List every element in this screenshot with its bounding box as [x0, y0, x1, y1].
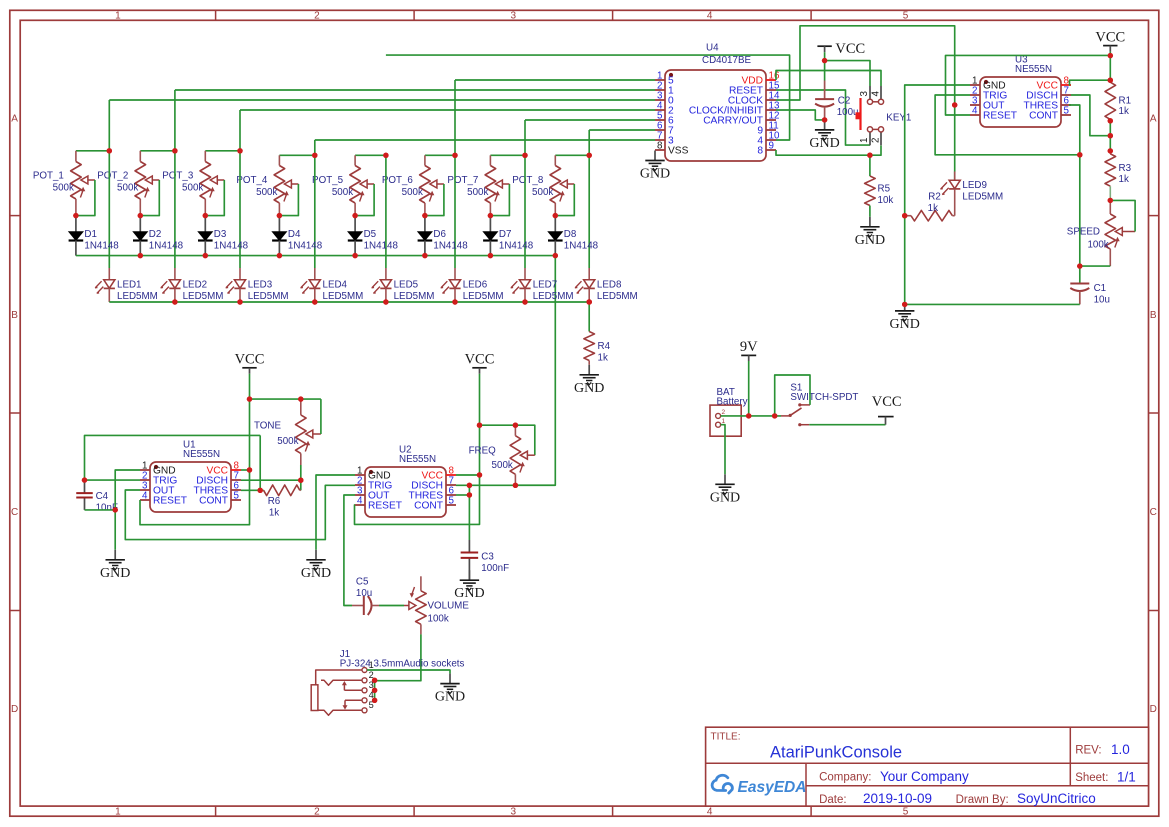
junction pot top [172, 148, 177, 153]
junction VCC right [1108, 53, 1113, 58]
junction R1 top [1108, 78, 1113, 83]
junction DISCH node [1108, 133, 1113, 138]
svg-text:LED5MM: LED5MM [183, 291, 224, 302]
wire column 2 vertical [174, 90, 176, 268]
diode D8 1N4148 [548, 216, 599, 256]
junction pot top [312, 153, 317, 158]
svg-text:10u: 10u [1094, 295, 1110, 306]
svg-text:RESET: RESET [368, 501, 402, 512]
wire U4 pin7 Q3 to column 4 [315, 139, 655, 141]
svg-text:GND: GND [855, 233, 885, 248]
junction J1 pin3 [372, 688, 377, 693]
wire U1 TRIG [85, 479, 141, 481]
wire U4 pin5 Q6 to column 7 [525, 119, 655, 121]
wire U4 pin1 Q5 to column 6 [455, 79, 655, 81]
junction FREQ bottom [513, 483, 518, 488]
wire DISCH-THRES-C3 vertical [468, 485, 470, 540]
potentiometer POT_8 500k [512, 155, 589, 215]
wire column 7 vertical [524, 120, 526, 268]
svg-text:500k: 500k [492, 460, 513, 471]
wire column 6 vertical [454, 80, 456, 268]
junction dots overlay [73, 53, 1113, 703]
svg-text:1N4148: 1N4148 [564, 241, 599, 252]
svg-text:1/1: 1/1 [1117, 770, 1136, 785]
wire column 4 vertical [314, 140, 316, 268]
svg-text:500k: 500k [117, 182, 138, 193]
svg-text:POT_8: POT_8 [512, 175, 544, 186]
svg-text:SoyUnCitrico: SoyUnCitrico [1017, 791, 1096, 806]
svg-text:5: 5 [1064, 106, 1070, 117]
svg-text:R6: R6 [268, 496, 281, 507]
IC U2 NE555N [355, 445, 456, 517]
svg-text:8: 8 [757, 146, 763, 157]
ground under R4 [574, 365, 604, 396]
wire diode cathode bus [76, 255, 555, 257]
junction LED bus LED7 [522, 299, 527, 304]
junction pot top [587, 153, 592, 158]
svg-text:100k: 100k [428, 613, 449, 624]
junction R3 bottom / SPEED top [1108, 198, 1113, 203]
wire U3 TRIG to timing node [935, 95, 1080, 155]
wire R1 to R3 [1109, 121, 1111, 151]
wire U3 RESET to VCC [946, 55, 1111, 115]
wire battery minus to ground [721, 425, 725, 475]
junction R1 bottom [1108, 118, 1113, 123]
junction TONE top [298, 396, 303, 401]
svg-text:GND: GND [435, 690, 465, 705]
svg-text:1: 1 [369, 660, 374, 670]
wire VCC2 to U2 pin8 [479, 425, 481, 475]
wire TONE bottom to DISCH and R6 [300, 465, 302, 490]
svg-text:C4: C4 [96, 491, 109, 502]
diode D3 1N4148 [198, 216, 249, 256]
wire column 3 vertical [239, 110, 241, 268]
svg-text:2: 2 [870, 138, 881, 143]
svg-text:500k: 500k [402, 187, 423, 198]
ground top right [890, 304, 920, 332]
svg-text:1k: 1k [269, 507, 279, 518]
potentiometer POT_4 500k [236, 155, 314, 215]
potentiometer TONE 500k [254, 399, 321, 465]
svg-text:1k: 1k [598, 353, 608, 364]
wire C5 to VOLUME wiper [379, 605, 404, 607]
svg-text:1N4148: 1N4148 [149, 241, 184, 252]
ground under R5 [855, 217, 885, 248]
svg-text:POT_1: POT_1 [33, 170, 64, 181]
svg-text:4: 4 [142, 491, 148, 502]
svg-text:LED5MM: LED5MM [533, 291, 574, 302]
connector J1 PJ-324 [311, 649, 464, 716]
resistor R2 1k [905, 192, 955, 222]
svg-text:C1: C1 [1094, 283, 1107, 294]
svg-text:LED5MM: LED5MM [394, 291, 435, 302]
wire U1 GND down [115, 470, 140, 550]
LED LED8 LED5MM [575, 268, 638, 302]
wire VCC right rail [1109, 52, 1111, 56]
svg-text:R4: R4 [598, 341, 611, 352]
svg-text:500k: 500k [182, 182, 203, 193]
svg-text:500k: 500k [277, 436, 298, 447]
wire J1 tied pins 2-3-4 [374, 680, 376, 700]
junction J1 pin2 [372, 678, 377, 683]
junction pot wiper/bottom [422, 213, 427, 218]
LED LED7 LED5MM [511, 268, 574, 302]
ground under U2 [301, 550, 331, 581]
junction U2 pin8 [477, 472, 482, 477]
junction J1 pin4 [372, 698, 377, 703]
svg-text:REV:: REV: [1075, 745, 1101, 757]
power flag VCC U2 [465, 352, 495, 374]
LED LED5 LED5MM [371, 268, 434, 302]
wire U1 RESET loop [140, 470, 250, 525]
svg-text:LED5MM: LED5MM [597, 291, 638, 302]
junction U3 OUT [952, 102, 957, 107]
junction diode bus D4 [277, 253, 282, 258]
svg-text:VCC: VCC [465, 352, 495, 368]
svg-text:FREQ: FREQ [469, 446, 497, 457]
wire U1 DISCH [241, 479, 301, 481]
power flag 9V [740, 339, 758, 361]
svg-text:KEY1: KEY1 [886, 113, 911, 124]
svg-text:D1: D1 [84, 229, 97, 240]
svg-text:LED6: LED6 [463, 279, 488, 290]
potentiometer POT_5 500k [312, 155, 386, 215]
junction LED bus LED2 [172, 299, 177, 304]
svg-text:POT_3: POT_3 [162, 170, 194, 181]
wire C1 bottom to ground rail [905, 303, 1080, 305]
junction LED bus LED3 [237, 299, 242, 304]
capacitor C1 10u [1070, 283, 1110, 306]
potentiometer SPEED 100k [1067, 200, 1135, 266]
wire VCC2 down [479, 374, 481, 425]
svg-text:GND: GND [640, 167, 670, 182]
wire VCC rail to KEY1 pin3 [825, 61, 870, 86]
svg-text:AtariPunkConsole: AtariPunkConsole [770, 744, 902, 762]
wire VCC1 to U1 pin8 and RESET [249, 399, 251, 470]
power flag VCC near switch [872, 394, 902, 425]
svg-text:POT_5: POT_5 [312, 175, 344, 186]
wire diode bus drop to U2 node [515, 256, 555, 486]
junction LED bus to R4 [587, 299, 592, 304]
svg-text:R5: R5 [878, 184, 891, 195]
svg-text:GND: GND [454, 586, 484, 601]
svg-text:4: 4 [870, 91, 881, 97]
junction LED bus LED4 [312, 299, 317, 304]
svg-text:8: 8 [657, 141, 663, 152]
svg-text:GND: GND [301, 566, 331, 581]
junction Q8 node [867, 153, 872, 158]
svg-text:500k: 500k [467, 187, 488, 198]
wire switch lower throw to VCC [809, 424, 885, 426]
LED LED3 LED5MM [226, 268, 289, 302]
wire battery plus to switch pole [721, 415, 781, 417]
svg-text:1: 1 [115, 11, 121, 22]
svg-text:Battery: Battery [717, 397, 748, 408]
svg-text:C5: C5 [356, 576, 369, 587]
LED LED9 LED5MM [940, 105, 1003, 216]
wire 9V to battery plus [748, 361, 750, 416]
wire U4 pin14 CLOCK from U3 OUT [776, 26, 955, 105]
wire U3 pin8 to R1 top [1069, 80, 1110, 85]
junction pot top [522, 153, 527, 158]
svg-text:LED3: LED3 [248, 279, 273, 290]
junction FREQ top [513, 423, 518, 428]
svg-text:RESET: RESET [983, 111, 1017, 122]
wire column 8 vertical [588, 130, 590, 268]
IC U4 CD4017BE [655, 43, 780, 162]
wire U4 pin6 Q7 to column 8 [589, 129, 655, 131]
svg-text:1N4148: 1N4148 [433, 241, 468, 252]
svg-text:LED5MM: LED5MM [323, 291, 364, 302]
svg-text:LED5MM: LED5MM [248, 291, 289, 302]
svg-text:9V: 9V [740, 339, 758, 355]
junction diode bus D8 [553, 253, 558, 258]
wire U4 pin9 Q8 to KEY1 pin2 and R5 [776, 150, 870, 155]
junction U1 pin8 [247, 467, 252, 472]
svg-text:A: A [1150, 114, 1157, 125]
svg-text:9: 9 [769, 141, 774, 152]
junction switch loop [772, 413, 777, 418]
svg-text:4: 4 [707, 806, 713, 817]
svg-text:4: 4 [972, 106, 978, 117]
svg-text:LED9: LED9 [962, 180, 987, 191]
wire switch upper throw loop [775, 375, 810, 416]
svg-text:LED5MM: LED5MM [463, 291, 504, 302]
LED LED6 LED5MM [441, 268, 504, 302]
svg-text:10u: 10u [356, 588, 372, 599]
svg-text:1: 1 [115, 806, 121, 817]
potentiometer FREQ 500k [469, 425, 535, 485]
junction diode bus D3 [203, 253, 208, 258]
svg-text:SPEED: SPEED [1067, 227, 1100, 238]
LED LED2 LED5MM [160, 268, 223, 302]
svg-text:VCC: VCC [235, 352, 265, 368]
svg-text:VOLUME: VOLUME [428, 600, 470, 611]
svg-text:1N4148: 1N4148 [214, 241, 249, 252]
svg-text:5: 5 [903, 11, 909, 22]
svg-text:5: 5 [234, 491, 240, 502]
junction pot top [107, 148, 112, 153]
wire LED cathode bus [109, 301, 589, 303]
svg-text:D2: D2 [149, 229, 162, 240]
svg-text:TITLE:: TITLE: [711, 732, 741, 743]
svg-text:POT_7: POT_7 [447, 175, 478, 186]
battery BAT [710, 387, 748, 436]
switch S1 SPDT [781, 382, 858, 426]
svg-text:VCC: VCC [1095, 30, 1125, 46]
svg-text:R2: R2 [928, 192, 941, 203]
resistor R3 1k [1105, 151, 1132, 201]
svg-text:1N4148: 1N4148 [84, 241, 119, 252]
svg-text:VCC: VCC [835, 41, 865, 57]
capacitor C4 10nF [76, 480, 118, 513]
junction pot top [452, 153, 457, 158]
junction R2 left [902, 213, 907, 218]
wire U2 GND down [316, 475, 355, 550]
junction VCC1 [247, 396, 252, 401]
svg-text:LED7: LED7 [533, 279, 558, 290]
junction LED bus LED5 [383, 299, 388, 304]
power flag VCC top middle [817, 41, 865, 57]
junction pot top [237, 148, 242, 153]
svg-text:100nF: 100nF [481, 563, 509, 574]
junction C3 top on DISCH [467, 483, 472, 488]
LED LED4 LED5MM [300, 268, 363, 302]
svg-text:CD4017BE: CD4017BE [702, 55, 751, 66]
svg-text:GND: GND [574, 381, 604, 396]
junction C2 bottom [822, 117, 827, 122]
svg-text:CONT: CONT [414, 501, 443, 512]
svg-text:NE555N: NE555N [399, 454, 436, 465]
wire J1 pin1 to ground [367, 670, 450, 674]
svg-text:LED8: LED8 [597, 279, 622, 290]
wire U2 OUT to C5 [344, 495, 355, 606]
resistor R1 1k [1105, 82, 1131, 119]
svg-text:3: 3 [511, 806, 517, 817]
svg-text:Your Company: Your Company [880, 769, 969, 784]
svg-text:1k: 1k [1119, 174, 1129, 185]
svg-text:GND: GND [809, 136, 839, 151]
svg-text:SWITCH-SPDT: SWITCH-SPDT [790, 392, 858, 403]
svg-text:Drawn By:: Drawn By: [956, 794, 1009, 806]
svg-text:1N4148: 1N4148 [499, 241, 534, 252]
svg-text:2: 2 [314, 11, 320, 22]
svg-text:B: B [1150, 310, 1157, 321]
svg-text:CONT: CONT [1029, 111, 1058, 122]
svg-text:3: 3 [859, 91, 870, 97]
junction THRES [467, 492, 472, 497]
diode D2 1N4148 [133, 216, 184, 256]
svg-text:LED5: LED5 [394, 279, 419, 290]
wire SPEED bottom to timing node [1080, 265, 1111, 267]
junction VCC rail [822, 58, 827, 63]
svg-text:LED5MM: LED5MM [117, 291, 158, 302]
potentiometer POT_1 500k [33, 151, 109, 216]
power flag VCC top right [1095, 30, 1125, 52]
wire U4 pin15 RESET to KEY1 pin1 [776, 90, 870, 145]
svg-text:D7: D7 [499, 229, 512, 240]
wire column 5 vertical [385, 155, 387, 268]
svg-text:B: B [11, 310, 18, 321]
svg-text:D: D [11, 704, 18, 715]
ground under C3 [454, 570, 484, 601]
svg-text:RESET: RESET [153, 496, 187, 507]
wire U1 OUT to U2 TRIG [125, 485, 355, 539]
junction U1 DISCH [298, 478, 303, 483]
junction R6 left [258, 488, 263, 493]
svg-text:3: 3 [511, 11, 517, 22]
wire VCC1 rail to TONE [250, 398, 321, 400]
junction VCC2 rail [477, 423, 482, 428]
svg-text:Company:: Company: [819, 772, 871, 784]
svg-text:1k: 1k [1119, 106, 1129, 117]
junction pot wiper/bottom [203, 213, 208, 218]
wire column 1 vertical [108, 100, 110, 268]
svg-text:C: C [1150, 507, 1157, 518]
svg-text:LED2: LED2 [183, 279, 208, 290]
wire VCC2 rail to FREQ wiper loop [480, 425, 535, 455]
svg-text:D5: D5 [364, 229, 377, 240]
diode D4 1N4148 [272, 216, 323, 256]
svg-text:D6: D6 [433, 229, 446, 240]
svg-text:LED5MM: LED5MM [962, 192, 1003, 203]
svg-text:1.0: 1.0 [1111, 742, 1130, 757]
capacitor C2 100u [815, 61, 858, 120]
wire U3 GND down [905, 85, 970, 304]
ground under battery [710, 474, 740, 505]
svg-text:LED4: LED4 [323, 279, 348, 290]
svg-text:1N4148: 1N4148 [288, 241, 323, 252]
junction R3 top [1108, 148, 1113, 153]
svg-text:D8: D8 [564, 229, 577, 240]
svg-text:10k: 10k [878, 195, 894, 206]
svg-text:EasyEDA: EasyEDA [738, 779, 807, 796]
ground under C2 [809, 120, 839, 151]
svg-text:4: 4 [707, 11, 713, 22]
svg-text:GND: GND [100, 566, 130, 581]
potentiometer POT_6 500k [382, 155, 455, 215]
wire C4 bottom to ground [85, 509, 116, 511]
svg-text:D4: D4 [288, 229, 301, 240]
ground near J1 [435, 674, 465, 705]
svg-text:100u: 100u [837, 107, 859, 118]
EasyEDA logo [712, 775, 806, 796]
potentiometer POT_7 500k [447, 155, 525, 215]
wire U4 pin16 VDD to KEY1 pin4 [776, 71, 881, 87]
resistor R5 10k [865, 155, 894, 217]
svg-text:C: C [11, 507, 18, 518]
svg-text:1: 1 [859, 138, 870, 143]
junction pot top [383, 153, 388, 158]
svg-text:TONE: TONE [254, 421, 282, 432]
svg-text:100k: 100k [1087, 239, 1108, 250]
capacitor C5 10u [352, 576, 379, 615]
svg-text:1N4148: 1N4148 [364, 241, 399, 252]
svg-text:2: 2 [314, 806, 320, 817]
diode D6 1N4148 [418, 216, 469, 256]
svg-text:5: 5 [449, 496, 455, 507]
svg-text:GND: GND [890, 317, 920, 332]
pushbutton KEY1 [856, 86, 912, 145]
wire U4 pin2 Q1 to column 2 [175, 89, 655, 91]
diode D5 1N4148 [348, 216, 399, 256]
svg-text:5: 5 [903, 806, 909, 817]
svg-text:C2: C2 [838, 95, 851, 106]
wire VOLUME bottom to J1 [375, 634, 421, 680]
junction 9V [746, 413, 751, 418]
IC U3 NE555N [970, 55, 1071, 127]
svg-text:500k: 500k [256, 187, 277, 198]
wire U4 pin3 Q0 to column 1 [109, 99, 655, 101]
svg-text:POT_2: POT_2 [97, 170, 128, 181]
svg-text:C3: C3 [481, 552, 494, 563]
junction pot wiper/bottom [488, 213, 493, 218]
ground U4 VSS [640, 151, 670, 182]
junction diode bus D6 [422, 253, 427, 258]
svg-text:D3: D3 [214, 229, 227, 240]
capacitor C3 100nF [461, 540, 509, 580]
resistor R6 1k [241, 485, 301, 518]
svg-text:GND: GND [710, 490, 740, 505]
svg-text:2019-10-09: 2019-10-09 [863, 791, 932, 806]
svg-text:NE555N: NE555N [183, 449, 220, 460]
svg-text:CONT: CONT [199, 496, 228, 507]
potentiometer VOLUME 100k [404, 576, 469, 634]
svg-text:4: 4 [357, 496, 363, 507]
ground under U1 [100, 550, 130, 581]
svg-text:500k: 500k [332, 187, 353, 198]
junction pot wiper/bottom [138, 213, 143, 218]
